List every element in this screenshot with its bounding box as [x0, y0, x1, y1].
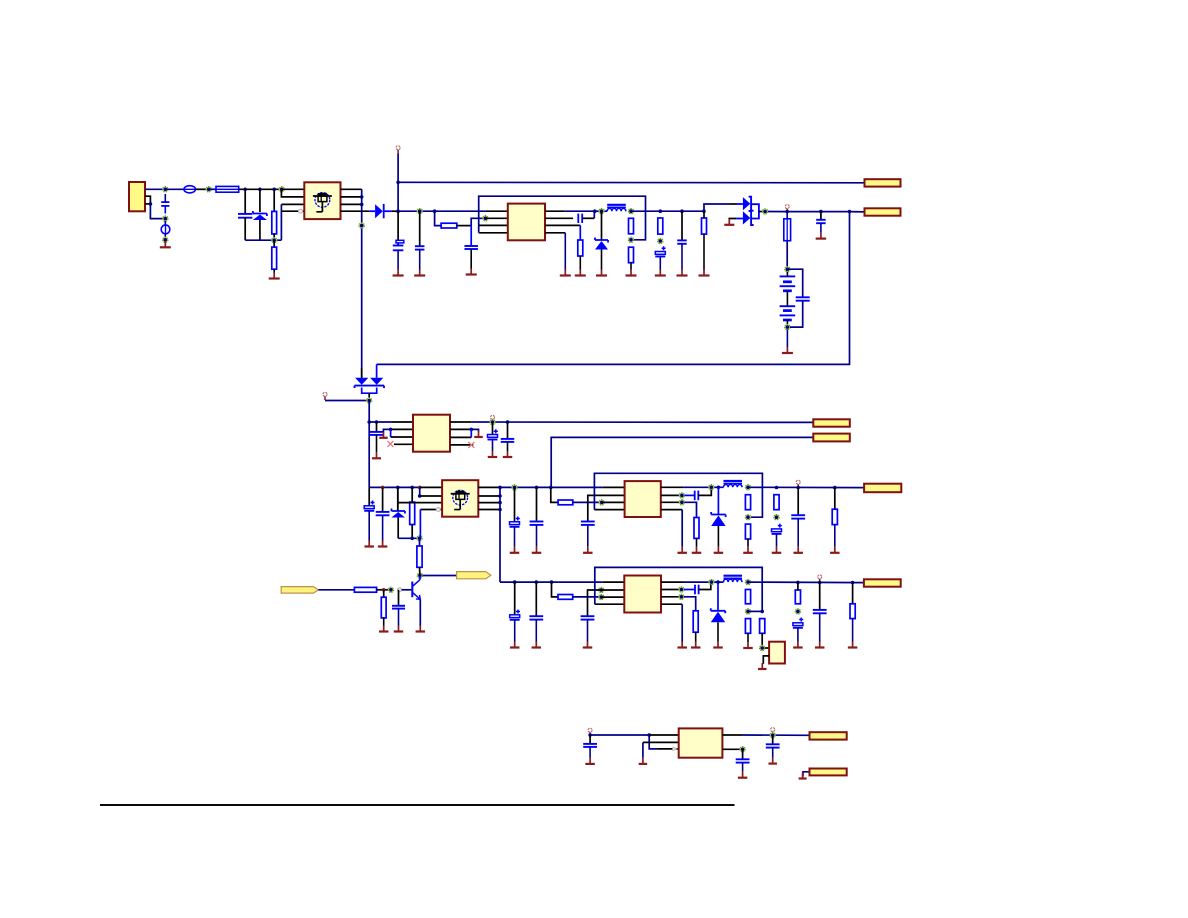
- resistor R13: [745, 524, 750, 539]
- wire pin8 down: [681, 510, 683, 547]
- connector J2 pin1: [865, 179, 901, 186]
- node N31: [599, 587, 605, 593]
- junction rail4 c: [550, 580, 554, 584]
- capacitor C27: [813, 610, 827, 613]
- capacitor C3: [415, 246, 425, 249]
- junction T2 s2: [498, 501, 502, 505]
- capacitor C4: [464, 246, 478, 249]
- wire U3 pin1 stub: [603, 486, 625, 488]
- wire TVS lead: [259, 189, 261, 212]
- node N29: [417, 573, 423, 579]
- terminal P8: [771, 728, 775, 732]
- wire bus right c: [850, 211, 865, 213]
- wire sw4 wire: [683, 581, 724, 583]
- node N4: [163, 237, 169, 243]
- capacitor C15: [510, 517, 520, 527]
- wire out to fuse col: [768, 211, 787, 213]
- wire ldo out: [743, 734, 810, 736]
- ground GND48: [639, 758, 648, 764]
- connector J2 pin2: [865, 208, 901, 215]
- wire N9 to U1 pin2: [485, 217, 507, 219]
- capacitor C24: [581, 616, 595, 619]
- wire switch node: [565, 210, 607, 212]
- wire Z2 lead: [717, 487, 719, 514]
- wire T1 pin4 stub: [281, 210, 304, 212]
- junction rail3 e: [498, 486, 502, 490]
- wire T2 pin5 stub: [478, 486, 500, 488]
- no-ERC marker T1 pin4: [299, 209, 303, 213]
- wire U2 pin1 stub: [392, 421, 413, 423]
- wire U3 pin7 stub: [661, 501, 682, 503]
- wire U1 pin4 stub: [479, 232, 508, 234]
- node N34: [679, 587, 685, 593]
- wire pin6 gnd path: [471, 429, 478, 431]
- wire R10 out: [573, 501, 602, 503]
- ground GND20: [474, 431, 483, 437]
- ground GND15: [816, 223, 827, 238]
- connector J5: [864, 579, 901, 586]
- capacitor C26: [793, 618, 803, 628]
- terminal P1: [396, 146, 400, 150]
- wire C5 out: [582, 217, 594, 219]
- separator rule: [100, 804, 735, 806]
- wire U5 pin2: [763, 656, 769, 664]
- capacitor C16: [530, 522, 544, 525]
- wire pin6-pin7 tie: [470, 429, 472, 437]
- junction T2 s1: [498, 494, 502, 498]
- ground GND28: [714, 526, 724, 553]
- wire TVS2 lead: [397, 487, 399, 511]
- net flag NF1: [281, 587, 318, 594]
- transistor Q1 (NPN): [412, 580, 420, 600]
- fuse F2 (rect): [216, 186, 239, 192]
- node N17: [366, 398, 372, 404]
- wire bus to R3: [435, 211, 442, 225]
- ground GND1: [160, 241, 171, 247]
- wire J6 pin2 gnd: [803, 772, 810, 777]
- node N6: [271, 237, 277, 243]
- junction bottom net3: [410, 537, 414, 541]
- ground GND18: [488, 440, 498, 457]
- ground GND16: [372, 435, 381, 458]
- wire diode anode lead: [737, 203, 743, 205]
- node N25: [679, 500, 685, 506]
- wire C12 lead: [507, 422, 509, 439]
- resistor R12: [745, 495, 750, 510]
- wire U4 pin7 stub: [661, 596, 681, 598]
- wire U1 pin8 stub: [545, 232, 565, 234]
- junction sw4: [716, 580, 720, 584]
- junction out a: [659, 209, 663, 213]
- wire C7 lead: [681, 211, 683, 240]
- node N20: [512, 485, 518, 491]
- wire U3 pin6 stub: [661, 494, 682, 496]
- ground GND2: [269, 269, 280, 278]
- capacitor C22: [510, 610, 520, 620]
- wire aux to U2: [369, 421, 392, 423]
- wire U3 out stub: [661, 486, 683, 488]
- wire R1 bottom: [273, 234, 275, 240]
- capacitor C6: [655, 246, 665, 256]
- wire battery cap branch: [787, 269, 802, 297]
- battery BT1: [780, 275, 796, 277]
- ground GND9: [626, 263, 637, 276]
- ground GND11: [677, 244, 688, 276]
- wire C18 up: [698, 490, 711, 496]
- capacitor C19: [772, 524, 782, 534]
- wire top rail: [398, 181, 864, 184]
- junction net1 a: [243, 188, 247, 192]
- ground GND50: [738, 763, 748, 778]
- wire rail4b: [558, 581, 603, 583]
- wire R3 to corner: [457, 225, 471, 227]
- wire U3 pin8 stub: [661, 509, 682, 511]
- resistor R11: [694, 518, 699, 539]
- ground GND19: [503, 442, 513, 457]
- node N1: [163, 187, 169, 193]
- capacitor C14: [376, 512, 390, 515]
- wire en path: [649, 735, 657, 749]
- wire R9 bottom: [411, 525, 413, 539]
- wire D2 to bus: [392, 210, 398, 212]
- wire bus right b: [821, 211, 850, 213]
- wire U1 loop: [479, 196, 646, 240]
- wire T1 drain vertical: [361, 189, 363, 378]
- wire R17 lead: [383, 590, 385, 597]
- wire U6 out stub: [722, 734, 743, 736]
- ground GND40: [677, 642, 687, 648]
- wire collector: [419, 576, 421, 580]
- wire pin7 down: [579, 225, 581, 240]
- junction rail4 b: [535, 580, 539, 584]
- wire U3 loop: [594, 473, 762, 517]
- wire fuse to node: [196, 188, 209, 190]
- junction rail3 a: [381, 486, 385, 490]
- no-ERC marker T2 pin4: [436, 508, 440, 512]
- wire P8 stub: [772, 732, 774, 736]
- wire U4 loop: [595, 567, 762, 611]
- wire diode2 anode: [736, 218, 743, 220]
- wire pin7 to R20: [684, 597, 696, 611]
- wire R15 lead: [834, 488, 836, 510]
- wire U6 pin2 stub: [722, 748, 742, 750]
- wire C28 lead: [589, 735, 591, 744]
- wire C25 in: [684, 589, 695, 591]
- ground GND8: [596, 250, 607, 276]
- node N16: [785, 324, 791, 330]
- wire C10 lead: [376, 422, 378, 432]
- wire fb link: [748, 610, 762, 612]
- capacitor C28: [583, 744, 597, 747]
- wire C11 lead: [492, 422, 494, 434]
- resistor R9: [410, 502, 415, 524]
- zener Z1: [595, 238, 608, 250]
- node N30: [599, 594, 605, 600]
- wire J1 pin2 to pin3 jog: [145, 196, 150, 204]
- wire U1 pin7 stub: [545, 224, 580, 226]
- zener Z2: [711, 512, 726, 526]
- connector J3 pin1: [813, 419, 850, 426]
- wire U2 out stub: [450, 421, 471, 423]
- wire C4 lead: [470, 226, 472, 246]
- wire TVS2 bottom: [397, 518, 399, 539]
- resistor R10: [558, 500, 573, 505]
- junction ldo en: [647, 733, 651, 737]
- wire U1 pin3 stub: [479, 224, 508, 226]
- no-connect X1: [387, 441, 393, 447]
- wire up to diode pair: [704, 204, 730, 211]
- wire zener Z1 lead: [601, 211, 603, 240]
- node N28: [388, 587, 394, 593]
- node N40: [740, 747, 746, 753]
- ground GND14: [782, 330, 793, 354]
- capacitor C9: [816, 220, 826, 223]
- wire pin7 to R11: [684, 502, 696, 517]
- junction C10: [375, 420, 379, 424]
- junction bus C9: [819, 210, 823, 214]
- wire pin2 to gnd: [383, 429, 390, 432]
- ground GND7: [560, 233, 571, 276]
- wire U2 pin6 stub: [450, 428, 471, 430]
- resistor R24: [795, 590, 800, 604]
- wire T1 pin3 down: [280, 204, 282, 240]
- junction rail3 b: [396, 486, 400, 490]
- resistor R21: [745, 590, 750, 604]
- resistor R20: [693, 611, 698, 632]
- resistor R14: [774, 495, 779, 510]
- resistor R23: [760, 619, 765, 634]
- wire T1 pin3 stub: [281, 203, 304, 205]
- node N11: [628, 208, 634, 214]
- wire P3 to node: [325, 400, 369, 402]
- wire U5 pin1 stub: [765, 647, 769, 649]
- wire T2 pin7 stub: [478, 502, 500, 504]
- wire T2 pin4 down: [419, 510, 421, 539]
- wire U4 pin1 stub: [603, 581, 625, 583]
- capacitor C12: [501, 439, 515, 442]
- ground GND26: [692, 538, 702, 552]
- regulator U2: [413, 415, 450, 452]
- node N37: [759, 645, 765, 651]
- node N9: [483, 216, 489, 222]
- wire T2 pin3 vert: [397, 487, 399, 511]
- wire J1 pin1: [145, 188, 165, 190]
- wire battery cap return: [790, 301, 803, 327]
- ground GND49: [768, 748, 777, 764]
- wire C18 in: [684, 494, 694, 496]
- capacitor C11: [488, 429, 498, 439]
- wire corner up to node: [471, 218, 485, 225]
- wire T2 sec vertical: [499, 487, 501, 582]
- node N13: [658, 238, 664, 244]
- wire battery return long: [377, 212, 850, 365]
- resistor R4: [578, 240, 583, 256]
- TVS diode D1: [253, 211, 267, 220]
- wire P4 stub: [492, 419, 494, 422]
- wire rail4 to R19: [552, 582, 559, 597]
- wire rail4: [500, 581, 558, 583]
- junction T2 pin2: [418, 494, 422, 498]
- wire U2 pin8 stub: [450, 444, 473, 446]
- wire U2 pin4 stub: [394, 443, 413, 445]
- wire rail3 to R10: [551, 487, 558, 502]
- resistor R7: [658, 218, 663, 234]
- node N8: [417, 208, 423, 214]
- ground GND38: [583, 620, 593, 648]
- junction aux in: [367, 420, 371, 424]
- resistor R25: [850, 604, 855, 619]
- capacitor C8: [796, 297, 810, 300]
- wire rail3 right: [500, 486, 603, 488]
- shunt reference U5: [769, 642, 785, 664]
- inductor L2: [724, 481, 743, 487]
- capacitor C23: [529, 616, 543, 619]
- wire DC bus: [398, 210, 486, 212]
- wire U6 gnd stub: [643, 741, 679, 743]
- ground GND32: [830, 525, 840, 553]
- wire R16 out: [377, 589, 391, 591]
- capacitor C1 (line filter): [161, 194, 169, 214]
- junction rail3 f: [535, 486, 539, 490]
- fuse F3: [784, 212, 791, 241]
- node N10: [599, 208, 605, 214]
- wire U4 out stub: [661, 581, 683, 583]
- wire aux out: [471, 421, 813, 423]
- capacitor C10: [370, 432, 384, 435]
- wire R25 lead: [852, 583, 854, 604]
- junction U2 pin6: [470, 428, 474, 432]
- junction net1 b: [258, 188, 262, 192]
- node N38: [795, 609, 801, 615]
- ground GND3: [393, 251, 404, 276]
- terminal P2: [785, 205, 789, 209]
- junction rail4 a: [513, 580, 517, 584]
- wire D4 right lead: [376, 364, 378, 377]
- junction fuse col: [785, 210, 789, 214]
- capacitor C17: [581, 522, 595, 525]
- wire U3 pin2 wire: [588, 495, 625, 521]
- junction out3 c: [833, 486, 837, 490]
- wire rail3 stub: [420, 486, 442, 488]
- TVS diode D5: [391, 509, 405, 518]
- wire U4 pin8 stub: [661, 603, 682, 605]
- DC-DC converter U3: [625, 481, 661, 517]
- diode D2: [369, 204, 392, 218]
- ground GND43: [758, 663, 767, 669]
- resistor R16: [354, 587, 376, 592]
- wire aux vertical: [368, 401, 370, 488]
- node N12: [628, 237, 634, 243]
- wire out3 wire: [748, 486, 864, 488]
- controller U1: [508, 204, 545, 241]
- wire C30 lead: [742, 749, 744, 759]
- connector J4: [864, 484, 901, 493]
- wire C21 lead: [398, 590, 400, 606]
- wire J1 pin3: [145, 203, 150, 205]
- dual diode D3 (OR-ing): [743, 197, 759, 225]
- fuse F1: [184, 186, 196, 193]
- wire U4 pin4 stub: [595, 603, 625, 605]
- wire C23 lead: [535, 582, 537, 616]
- wire T1 pin2 tie: [281, 189, 304, 197]
- junction out c: [702, 209, 706, 213]
- junction fb4: [760, 610, 764, 614]
- wire C20 lead: [797, 488, 799, 516]
- wire bus right a: [787, 211, 821, 213]
- wire T1 pin5: [341, 188, 362, 190]
- wire pin8 down4: [681, 604, 683, 641]
- wire U4 pin6 stub: [661, 589, 681, 591]
- ground GND36: [510, 620, 520, 648]
- connector J3 pin2: [813, 434, 850, 442]
- capacitor C2 (bulk): [393, 240, 404, 250]
- wire U2 pin3 stub: [391, 436, 413, 438]
- capacitor C29: [766, 744, 780, 747]
- wire R19 out: [573, 596, 602, 598]
- junction T1 v2: [360, 203, 364, 207]
- junction C12: [506, 420, 510, 424]
- ground GND12: [699, 234, 710, 275]
- junction T2 s3: [498, 508, 502, 512]
- junction U2 pin2: [389, 428, 393, 432]
- node N19: [417, 536, 423, 542]
- wire out4 wire: [748, 581, 864, 584]
- wire C9 lead: [820, 212, 822, 220]
- dual diode D4 (common cathode): [355, 378, 385, 393]
- capacitor CX: [238, 214, 252, 218]
- node N3: [163, 216, 169, 222]
- wire R9 lead: [411, 487, 413, 502]
- snubber capacitor C18: [695, 491, 699, 501]
- resistor R19: [558, 595, 573, 600]
- terminal P7: [588, 728, 592, 732]
- wire C25 up: [699, 585, 711, 590]
- ground GND44: [793, 628, 803, 648]
- wire P2 stub: [786, 209, 788, 212]
- wire P1 down: [397, 154, 399, 212]
- wire U1 pin6 stub: [545, 217, 573, 219]
- node N15: [785, 266, 791, 272]
- wire sw3 wire: [683, 486, 723, 488]
- wire base: [402, 589, 412, 591]
- ground GND17: [379, 432, 388, 438]
- wire diode tap: [759, 211, 763, 213]
- ground GND23: [510, 527, 520, 553]
- wire P3 stub: [324, 396, 326, 400]
- transformer module T1: [304, 182, 340, 219]
- capacitor C30: [736, 759, 750, 762]
- wire N5 to T1 pin1: [282, 188, 305, 190]
- net flag NF2: [457, 572, 491, 579]
- junction T1 v1: [360, 195, 364, 199]
- resistor R6: [629, 247, 634, 263]
- wire F2 to network: [239, 188, 282, 190]
- wire U4 pin3 stub: [601, 596, 624, 598]
- ground GND27: [677, 547, 687, 553]
- wire C22 lead: [514, 582, 516, 614]
- resistor R18: [417, 546, 422, 567]
- node N14: [762, 209, 768, 215]
- node N39: [770, 732, 776, 738]
- wire T2 pin8 stub: [478, 509, 500, 511]
- wire T2 pin4 stub: [420, 509, 442, 511]
- capacitor C13: [364, 501, 374, 511]
- wire T1 pin8: [341, 210, 370, 212]
- wire rail3: [369, 486, 420, 488]
- wire diode2 anode b: [729, 219, 736, 220]
- node N22: [709, 485, 715, 491]
- ground GND34: [394, 609, 404, 632]
